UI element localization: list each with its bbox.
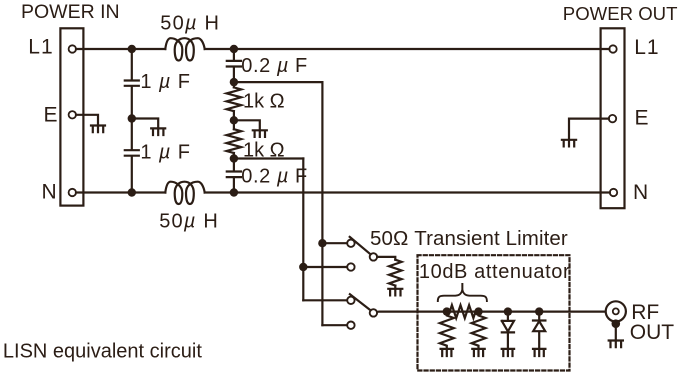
diode D1 (cathode down) (502, 312, 514, 349)
wire 50ohm to ground (394, 286, 396, 289)
switch SW1 throw2 contact (347, 263, 354, 270)
svg-text:E: E (635, 107, 649, 130)
wire L1 left segment (76, 48, 165, 50)
svg-text:L1: L1 (634, 36, 659, 59)
node junction cap/R top (230, 78, 238, 86)
node feeder A / SW1 tap (318, 239, 326, 247)
terminal L1 (power in) (69, 45, 76, 52)
wire 1uF branch lower (131, 156, 133, 192)
resistor shunt 2 (attenuator) (472, 312, 486, 349)
wire 0.2uF to R (233, 67, 235, 87)
wire 0.2uF to N (233, 178, 235, 193)
wire between 1uF caps (131, 86, 133, 149)
ground (diode D1) (502, 349, 514, 356)
svg-text:50µ H: 50µ H (160, 13, 220, 35)
ground (RF OUT) (609, 341, 623, 348)
capacitor 0.2uF upper (227, 61, 241, 67)
RF OUT connector outer (606, 301, 626, 321)
node junction N/chain (230, 188, 238, 196)
svg-text:50Ω Transient Limiter: 50Ω Transient Limiter (370, 227, 568, 250)
wire SW1 common to 50ohm (377, 257, 395, 260)
resistor series (attenuator) (450, 305, 476, 318)
terminal E (power out) (609, 115, 616, 122)
wire RF shield to ground (615, 324, 617, 341)
wire feeder A to SW2 throw2 (322, 324, 347, 326)
POWER IN connector box (60, 28, 83, 205)
resistor shunt 1 (attenuator) (440, 312, 454, 349)
wire feeder A vertical (321, 82, 323, 325)
wire E-out ground stub (569, 119, 609, 140)
switch SW1 throw1 contact (347, 240, 354, 247)
terminal E (power in) (69, 111, 76, 118)
switch SW2 throw1 contact (347, 297, 354, 304)
POWER OUT connector box (601, 28, 625, 208)
ground (diode D2) (533, 349, 545, 356)
svg-text:N: N (42, 181, 57, 204)
terminal L1 (power out) (609, 45, 616, 52)
switch SW1 common contact (370, 253, 377, 260)
wire 1uF branch upper (131, 49, 133, 80)
wire R to 0.2uF (233, 153, 235, 171)
svg-text:50µ H: 50µ H (159, 211, 219, 233)
ground (attenuator R1) (441, 349, 453, 356)
inductor 50uH (N line) (165, 182, 204, 204)
capacitor 1uF lower (125, 150, 139, 156)
wire feeder B horizontal (bottom tap) (234, 157, 303, 159)
svg-text:1 µ F: 1 µ F (140, 71, 191, 93)
inductor 50uH (L1 line) (165, 38, 204, 60)
node junction L1/1uF (128, 45, 136, 53)
wire L1 right segment (205, 48, 610, 50)
svg-text:0.2 µ F: 0.2 µ F (241, 55, 308, 77)
svg-text:OUT: OUT (630, 321, 675, 344)
resistor 1k lower (227, 129, 242, 153)
wire chain-mid ground stub (234, 120, 260, 130)
brace over attenuator resistors (438, 284, 487, 301)
node junction R/cap bottom (230, 154, 238, 162)
switch SW1 arm (350, 237, 371, 255)
ground (power in E) (91, 126, 105, 133)
node attenuator mid (474, 307, 482, 315)
node attenuator in (443, 307, 451, 315)
10dB attenuator dashed box (418, 255, 570, 370)
wire SW1 throw2 lead (303, 266, 347, 268)
wire SW1 throw1 lead (322, 242, 347, 244)
terminal N (power out) (610, 189, 617, 196)
wire feeder B vertical (302, 159, 304, 301)
wire mid-cap ground stub (132, 119, 158, 129)
wire feeder B to SW2 throw1 (303, 299, 347, 301)
capacitor 0.2uF lower (227, 172, 241, 178)
node feeder B / SW1 tap (299, 263, 307, 271)
switch SW2 arm (350, 294, 371, 310)
ground (between 1k resistors) (253, 130, 267, 137)
svg-text:1k Ω: 1k Ω (243, 91, 285, 113)
svg-text:POWER OUT: POWER OUT (563, 3, 678, 24)
switch SW2 common contact (370, 309, 377, 316)
wire RF line (377, 311, 606, 314)
node junction N/1uF (128, 188, 136, 196)
ground (50ohm) (388, 289, 402, 296)
RF OUT connector inner (613, 308, 619, 314)
svg-text:L1: L1 (28, 36, 53, 59)
svg-text:N: N (633, 181, 648, 204)
svg-text:E: E (44, 104, 58, 127)
wire R to R (233, 111, 235, 129)
diode D2 (cathode up) (533, 312, 545, 349)
terminal N (power in) (69, 189, 76, 196)
capacitor 1uF upper (125, 81, 139, 86)
switch SW2 throw2 contact (347, 322, 354, 329)
svg-text:10dB attenuator: 10dB attenuator (419, 261, 570, 283)
node junction R/R mid (230, 116, 238, 124)
svg-text:0.2 µ F: 0.2 µ F (241, 165, 308, 187)
ground (between 1uF caps) (151, 128, 165, 135)
ground (attenuator R2) (472, 349, 484, 356)
svg-text:LISN equivalent circuit: LISN equivalent circuit (3, 340, 202, 362)
svg-text:POWER IN: POWER IN (21, 1, 120, 23)
ground (power out E) (562, 140, 576, 147)
node junction mid 1uF (128, 114, 136, 122)
wire feeder A horizontal (top tap) (234, 81, 323, 83)
wire N right segment (205, 191, 610, 193)
wire N left segment (76, 191, 165, 193)
svg-text:1 µ F: 1 µ F (140, 141, 191, 163)
node diode D1 tap (504, 307, 512, 315)
node diode D2 tap (535, 307, 543, 315)
wire E-in ground stub (76, 115, 98, 126)
wire RC chain top stub (233, 49, 235, 60)
node RF shield (612, 319, 621, 328)
node junction L1/chain (230, 45, 238, 53)
resistor 1k upper (227, 87, 242, 111)
svg-text:1k Ω: 1k Ω (243, 139, 285, 161)
resistor 50ohm (389, 260, 402, 286)
